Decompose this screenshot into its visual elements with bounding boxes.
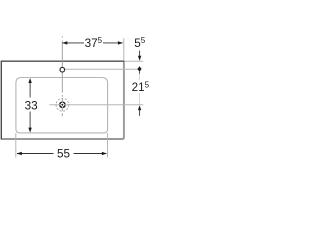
dim 5.5 down arrow tail bbox=[139, 51, 141, 57]
dim 21.5 line lower segment bbox=[139, 93, 141, 104]
svg-text:33: 33 bbox=[25, 99, 38, 112]
dim 55 left arrow bbox=[17, 152, 22, 155]
dim 55 line bbox=[17, 153, 106, 155]
svg-text:375: 375 bbox=[85, 36, 103, 50]
dim 33 line upper segment bbox=[29, 83, 31, 98]
dim 37.5 left arrow bbox=[62, 41, 67, 44]
dim 21.5 up arrow tail bbox=[139, 110, 141, 116]
svg-text:215: 215 bbox=[132, 80, 149, 94]
drain leader line bbox=[49, 104, 143, 106]
bowl left edge extension line for dim 55 bbox=[15, 133, 17, 158]
dim 33 bottom arrow bbox=[28, 128, 31, 133]
dim 33 top arrow bbox=[28, 78, 31, 83]
drain center diamond bbox=[61, 104, 63, 106]
top edge horizontal extension line for dim 5.5 bbox=[125, 60, 144, 62]
dim 21.5 line upper segment bbox=[139, 72, 141, 81]
svg-text:55: 55 bbox=[57, 147, 71, 160]
drain inner ring with cardinal gaps bbox=[60, 102, 65, 107]
drain outer dashed circle bbox=[56, 98, 69, 111]
washbasin outer outline (top and left edges) bbox=[1, 61, 124, 139]
svg-text:55: 55 bbox=[134, 36, 146, 50]
tap hole leader line bbox=[65, 68, 142, 70]
dim 55 right arrow bbox=[102, 152, 107, 155]
dim 37.5 line bbox=[62, 42, 122, 44]
dim 37.5 right arrow bbox=[118, 41, 123, 44]
washbasin outer outline shadow (right and bottom edges) bbox=[1, 61, 124, 139]
inner bowl outline bbox=[16, 78, 108, 133]
dim 33 line lower segment bbox=[29, 112, 31, 129]
shared diamond terminator at tap line bbox=[137, 66, 141, 71]
drain white mask under inner ring bbox=[60, 103, 64, 107]
tap hole bbox=[60, 67, 65, 72]
dim 21.5 up arrow bbox=[138, 105, 141, 110]
vertical centerline (dash-dot) bbox=[61, 36, 63, 116]
dim 5.5 down arrow bbox=[138, 56, 141, 61]
bowl right edge extension line for dim 55 bbox=[107, 133, 109, 157]
vertical extension line for dim 37.5 (right) bbox=[123, 38, 125, 60]
